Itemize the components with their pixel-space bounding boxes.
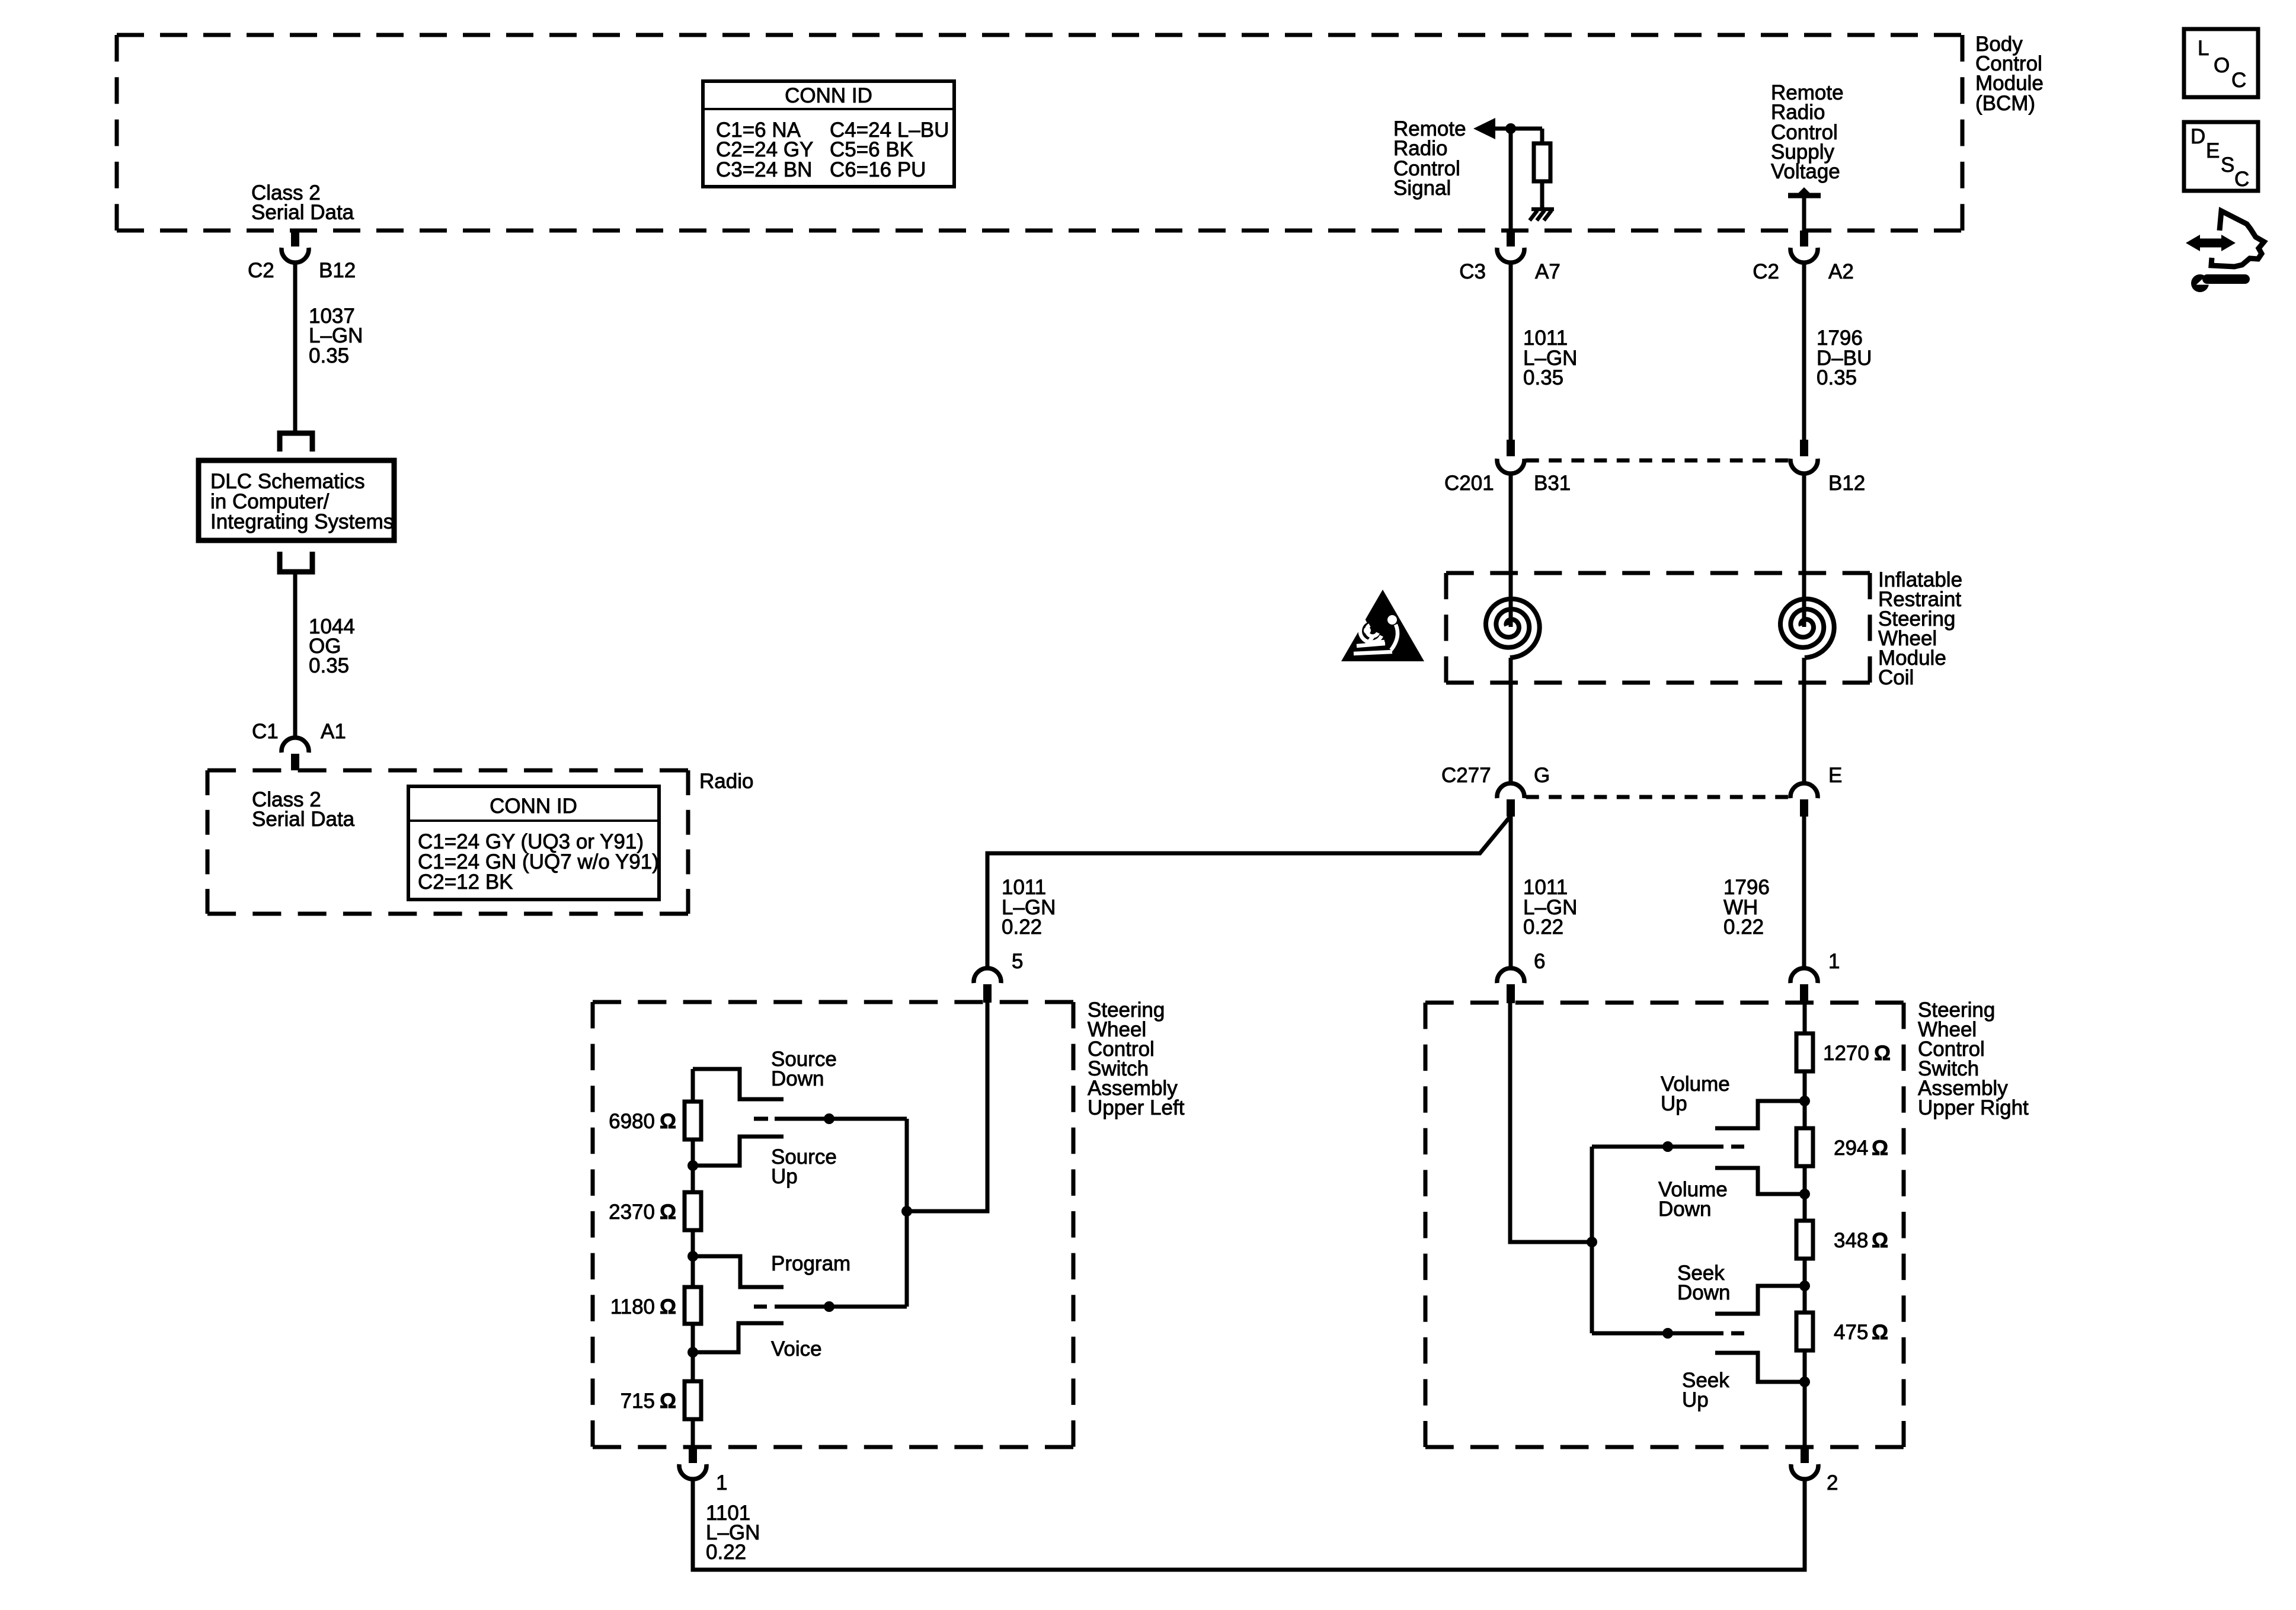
wire: right resistor chain — [1803, 1003, 1807, 1447]
wire: chain top to Source Down contact — [693, 1069, 784, 1099]
resistor 715 ohm — [685, 1381, 701, 1419]
switch pole (Seek) — [1592, 1331, 1723, 1336]
node: junction on signal line — [1505, 123, 1516, 134]
Steering Wheel Control Switch Assembly Upper Left dashed box — [593, 1000, 1073, 1004]
switch Volume Down contact — [1715, 1168, 1805, 1194]
svg-text:0.35: 0.35 — [1817, 366, 1857, 389]
svg-text:C2: C2 — [1753, 260, 1779, 283]
wire: circuit 1037 — [293, 263, 298, 431]
svg-text:Ω: Ω — [1872, 1137, 1888, 1160]
resistor 1270 ohm — [1796, 1033, 1813, 1071]
switch Seek Down contact — [1715, 1286, 1805, 1314]
connector C1/A1 (radio) — [252, 720, 346, 770]
svg-text:715: 715 — [621, 1390, 655, 1413]
connector C201 pin B31 — [1444, 440, 1571, 495]
resistor 6980 ohm — [685, 1102, 701, 1140]
svg-text:B31: B31 — [1534, 472, 1571, 495]
svg-text:Ω: Ω — [660, 1110, 676, 1133]
svg-text:CONN ID: CONN ID — [785, 84, 872, 107]
svg-text:Ω: Ω — [660, 1295, 676, 1318]
svg-text:(BCM): (BCM) — [1975, 92, 2035, 115]
svg-text:A1: A1 — [321, 720, 346, 743]
wire: B12 to coil — [1802, 473, 1806, 627]
connector view icon (double arrow, outline, wrench) — [2186, 211, 2264, 292]
svg-text:Down: Down — [1677, 1281, 1730, 1304]
connector C201 pin B12 — [1790, 440, 1865, 495]
svg-text:Ω: Ω — [1872, 1229, 1888, 1252]
svg-text:0.35: 0.35 — [309, 344, 349, 367]
wire: resistor to ground — [1540, 181, 1544, 209]
svg-text:CONN ID: CONN ID — [490, 795, 577, 818]
svg-text:0.35: 0.35 — [309, 654, 349, 677]
switch pole (Volume) — [1592, 1145, 1723, 1149]
dotted line: C201 connector tie — [1526, 459, 1788, 463]
svg-text:C2=12 BK: C2=12 BK — [418, 870, 513, 894]
connector pin 5 — [974, 950, 1023, 1003]
CONN ID table (radio) — [408, 786, 659, 900]
svg-text:Voice: Voice — [771, 1337, 822, 1361]
svg-text:C3: C3 — [1459, 260, 1486, 283]
svg-text:Up: Up — [1682, 1388, 1709, 1411]
svg-text:Ω: Ω — [660, 1201, 676, 1224]
node A (below 1270) — [1799, 1096, 1810, 1106]
switch Seek Up contact — [1715, 1353, 1805, 1382]
svg-text:C6=16 PU: C6=16 PU — [830, 158, 926, 181]
switch Source Up contact — [693, 1137, 784, 1166]
svg-text:C: C — [2234, 168, 2249, 191]
svg-text:348: 348 — [1834, 1229, 1868, 1252]
svg-text:2: 2 — [1827, 1471, 1838, 1494]
svg-text:294: 294 — [1834, 1137, 1868, 1160]
svg-text:1: 1 — [1828, 950, 1840, 973]
label: Remote Radio Control Supply Voltage — [1771, 81, 1844, 183]
label: 1796 D-BU 0.35 — [1817, 327, 1872, 389]
Inflatable Restraint Steering Wheel Module Coil dashed box — [1446, 571, 1870, 575]
svg-text:C: C — [2231, 69, 2246, 92]
wire: junction down to BCM edge — [1509, 126, 1513, 232]
svg-text:B12: B12 — [1828, 472, 1865, 495]
svg-text:Voltage: Voltage — [1771, 160, 1840, 183]
svg-text:1: 1 — [716, 1471, 727, 1494]
svg-text:Radio: Radio — [699, 770, 753, 793]
label: 1044 OG 0.35 — [309, 615, 355, 677]
svg-text:Integrating Systems: Integrating Systems — [210, 510, 394, 533]
DLC Schematics reference box — [199, 460, 394, 540]
wire: circuit 1796 (0.35) — [1802, 263, 1806, 442]
CONN ID table (BCM) — [703, 81, 954, 187]
svg-text:6: 6 — [1534, 950, 1545, 973]
svg-text:G: G — [1534, 764, 1550, 787]
switch Program contact — [693, 1256, 784, 1287]
connector C277 pin E — [1790, 764, 1842, 817]
signal arrow (points left) — [1473, 118, 1495, 139]
svg-text:B12: B12 — [319, 259, 356, 282]
svg-text:Ω: Ω — [1872, 1321, 1888, 1344]
svg-text:C3=24 BN: C3=24 BN — [716, 158, 812, 181]
svg-text:0.22: 0.22 — [1002, 916, 1042, 939]
label: Remote Radio Control Signal — [1393, 117, 1466, 200]
svg-text:Program: Program — [771, 1252, 850, 1275]
ground (chassis) — [1530, 209, 1554, 220]
Body Control Module (BCM) dashed box — [117, 33, 1962, 37]
connector C2/A2 (BCM supply voltage) — [1753, 231, 1854, 283]
svg-text:C201: C201 — [1444, 472, 1494, 495]
connector pin 2 (upper right assembly, bottom) — [1791, 1447, 1838, 1494]
svg-text:A7: A7 — [1535, 260, 1560, 283]
label: Class 2 Serial Data (radio) — [252, 788, 355, 831]
svg-text:S: S — [2221, 153, 2234, 177]
svg-text:0.22: 0.22 — [1523, 916, 1563, 939]
svg-text:Ω: Ω — [660, 1390, 676, 1413]
resistor (BCM internal pull-down) — [1534, 143, 1550, 181]
wire: pole bus (right assembly) — [1590, 1147, 1594, 1333]
terminal bracket (from DLC schematics) — [280, 552, 312, 572]
connector pin 1 (upper left assembly, bottom) — [679, 1447, 727, 1494]
label: Class 2 Serial Data (BCM) — [251, 181, 354, 224]
svg-text:Coil: Coil — [1878, 666, 1914, 689]
svg-text:D: D — [2191, 125, 2205, 148]
svg-text:Serial Data: Serial Data — [252, 808, 355, 831]
label: 1101 L-GN 0.22 — [706, 1502, 760, 1564]
svg-text:Ω: Ω — [1874, 1042, 1891, 1065]
dotted line: C277 connector tie — [1526, 795, 1788, 799]
svg-text:E: E — [2206, 139, 2220, 162]
coil (left spiral) — [1486, 599, 1540, 658]
svg-text:Upper Left: Upper Left — [1088, 1096, 1185, 1119]
wire: circuit 1044 — [293, 572, 298, 738]
wire: left resistor chain — [691, 1069, 695, 1447]
label: 1011 L-GN 0.22 (to pin 6) — [1523, 876, 1577, 939]
wire: pin 6 feed down and across to pole bus — [1510, 1003, 1592, 1242]
svg-text:Down: Down — [771, 1067, 824, 1090]
resistor 2370 ohm — [685, 1192, 701, 1230]
terminal bracket (to DLC schematics) — [280, 433, 312, 452]
svg-text:C2: C2 — [248, 259, 274, 282]
svg-text:0.22: 0.22 — [1723, 916, 1764, 939]
wire: supply terminal to BCM edge — [1802, 196, 1806, 232]
svg-text:C1: C1 — [252, 720, 279, 743]
svg-text:Serial Data: Serial Data — [251, 201, 354, 224]
svg-text:O: O — [2214, 54, 2230, 77]
switch pole (Program/Voice) — [775, 1305, 907, 1309]
svg-text:L: L — [2198, 37, 2209, 60]
wire: G branch diagonal to upper-left switch assembly — [987, 817, 1510, 968]
label: 1037 L-GN 0.35 — [309, 305, 363, 367]
svg-text:1180: 1180 — [610, 1295, 655, 1318]
svg-text:2370: 2370 — [609, 1201, 655, 1224]
wire: circuit 1101 (pin 1 to pin 2) — [693, 1479, 1805, 1570]
connector pin 6 — [1497, 950, 1545, 1003]
resistor 1180 ohm — [685, 1287, 701, 1324]
resistor 348 ohm — [1796, 1221, 1813, 1259]
DESC legend box — [2184, 122, 2258, 191]
wire: pole bus (left assembly) — [905, 1119, 909, 1307]
wire: circuit 1011 (0.35) — [1509, 263, 1513, 442]
connector C3/A7 (BCM remote radio control signal) — [1459, 231, 1560, 283]
switch Volume Up contact — [1715, 1101, 1805, 1128]
connector C277 pin G — [1441, 764, 1550, 817]
wire: G to connector 6 — [1509, 817, 1513, 968]
LOC legend box — [2184, 29, 2258, 97]
svg-text:Signal: Signal — [1393, 177, 1451, 200]
svg-text:E: E — [1828, 764, 1842, 787]
wire: B31 to coil — [1509, 473, 1513, 627]
switch pole (Source) — [775, 1117, 907, 1121]
connector C2/B12 (BCM to DLC wire) — [248, 231, 356, 282]
wire: branch down to internal resistor — [1540, 129, 1544, 145]
wire: left coil to C277 — [1509, 658, 1513, 785]
svg-text:Upper Right: Upper Right — [1918, 1096, 2029, 1119]
svg-text:Up: Up — [1661, 1092, 1687, 1115]
wire: arrow to resistor branch — [1494, 127, 1542, 131]
Steering Wheel Control Switch Assembly Upper Right dashed box — [1425, 1001, 1904, 1005]
wire: bus to pin 5 — [907, 1003, 987, 1211]
svg-text:A2: A2 — [1828, 260, 1854, 283]
wire: E to connector 1 — [1802, 817, 1806, 968]
svg-text:Down: Down — [1658, 1198, 1711, 1221]
switch Source Down (fixed contact drawn above) — [771, 1048, 837, 1090]
svg-text:6980: 6980 — [609, 1110, 655, 1133]
label: 1011 L-GN 0.22 (to pin 5) — [1002, 876, 1056, 939]
svg-text:Up: Up — [771, 1165, 798, 1188]
svg-text:0.35: 0.35 — [1523, 366, 1563, 389]
resistor 294 ohm — [1796, 1128, 1813, 1166]
Radio dashed box — [207, 769, 688, 773]
svg-text:5: 5 — [1012, 950, 1023, 973]
svg-text:475: 475 — [1834, 1321, 1868, 1344]
coil (right spiral) — [1780, 599, 1834, 658]
resistor 475 ohm — [1796, 1313, 1813, 1350]
svg-text:C277: C277 — [1441, 764, 1491, 787]
label: 1011 L-GN 0.35 — [1523, 327, 1577, 389]
switch Voice contact — [693, 1323, 784, 1352]
SIR caution triangle — [1341, 590, 1424, 661]
svg-text:0.22: 0.22 — [706, 1541, 746, 1564]
supply terminal (B+) — [1788, 193, 1821, 199]
label: Body Control Module (BCM) — [1975, 33, 2044, 115]
wire: right coil to E — [1802, 658, 1806, 785]
svg-text:1270: 1270 — [1823, 1042, 1869, 1065]
label: 1796 WH 0.22 (to pin 1) — [1723, 876, 1770, 939]
connector pin 1 (upper right assembly) — [1790, 950, 1840, 1003]
